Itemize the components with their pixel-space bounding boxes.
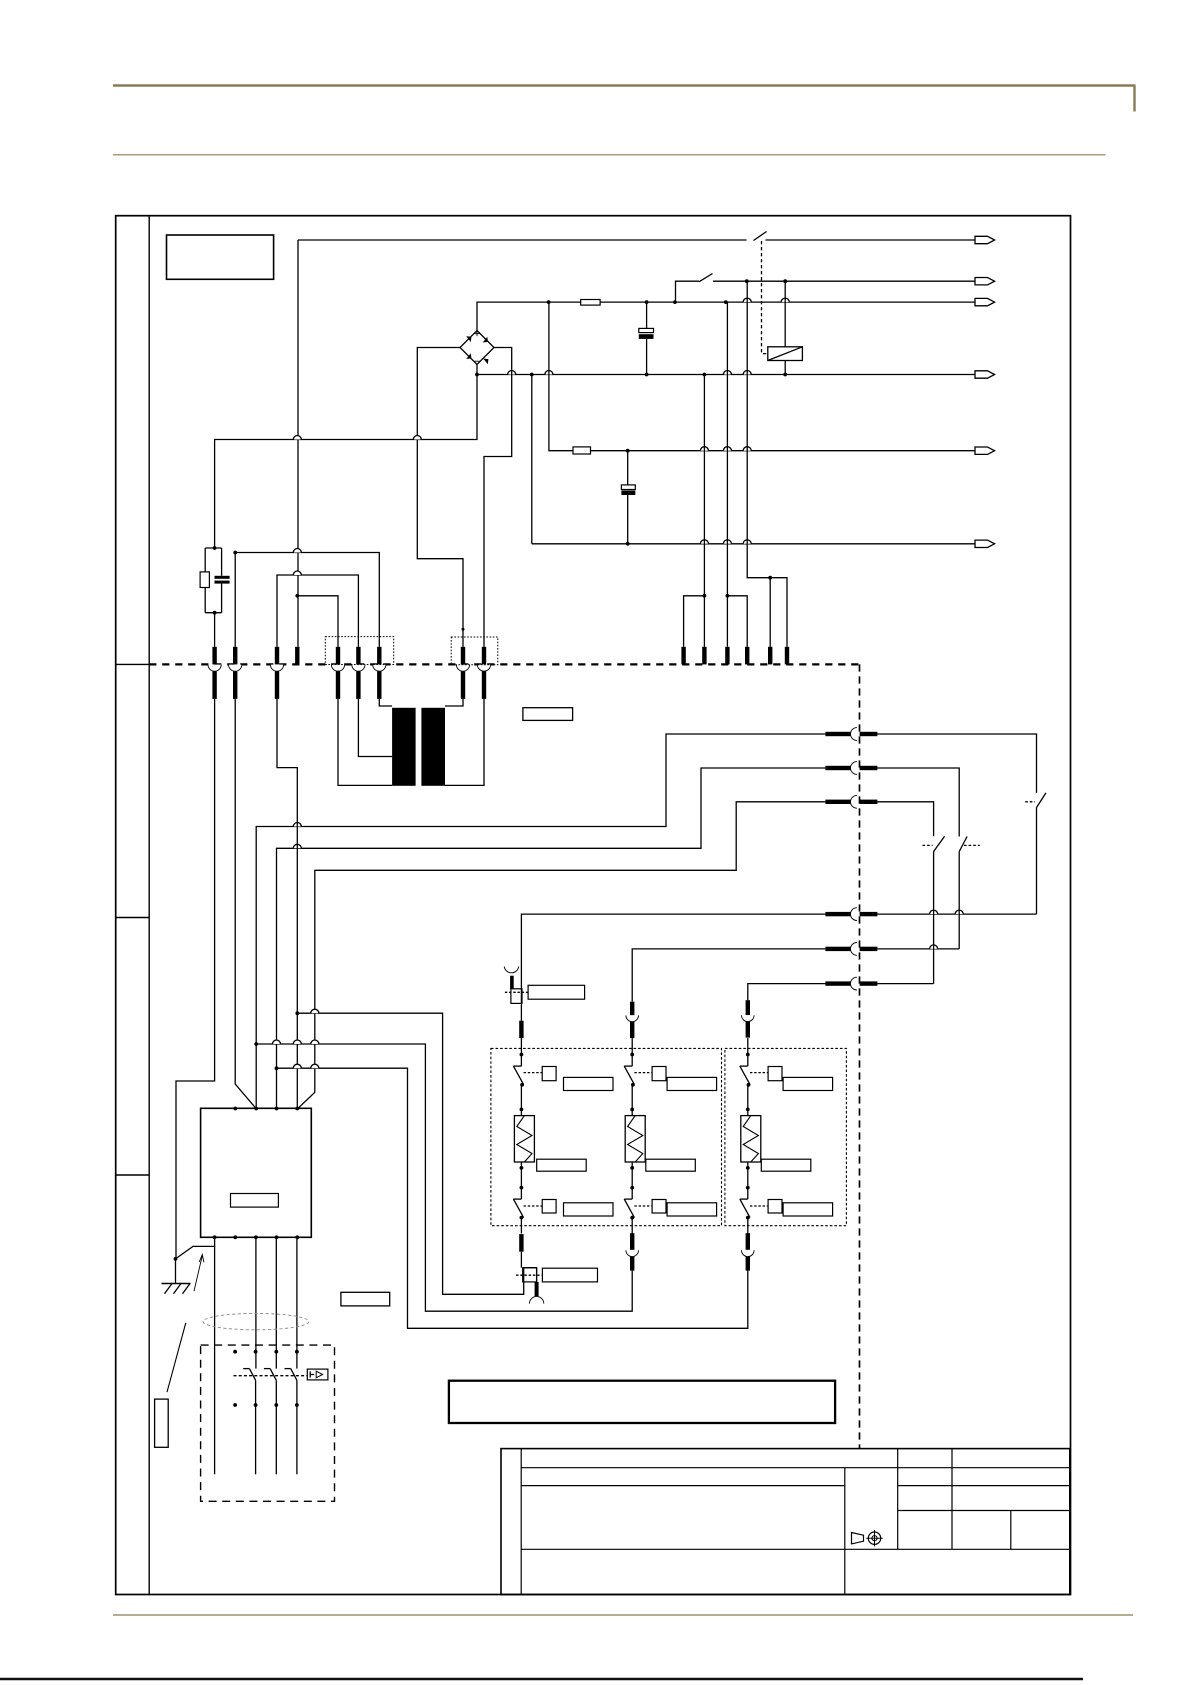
motor lead U [255,1237,257,1368]
hops feedback 2 [273,1040,319,1044]
relay K1 coil [768,347,803,361]
wire feedback 3 [277,1068,748,1328]
capacitor C1 [639,302,654,374]
switch S1 dashed link to relay [762,241,768,354]
junction phase V [275,1066,279,1070]
title block row 3 right [898,1510,1070,1512]
fan3 connector pair [742,1000,755,1037]
hop phase V [293,844,301,848]
hop pin2 wire [293,549,301,553]
title block mid vertical [844,1468,846,1595]
fuse F2 [573,447,591,454]
fan2 connector pair [626,1002,639,1038]
transformer T1 secondary core [421,708,445,786]
fuse holder F3 socket arc [504,966,519,972]
hops return rail [700,540,751,544]
thermal trip dashed link [234,1375,308,1377]
connector boundary dashed vertical [859,664,861,1448]
wire to pins 12-13 [726,302,748,647]
drive unit top junctions [233,1107,299,1111]
wire pin9 to transformer sec bottom [445,699,484,786]
junction pin4 wire [295,594,299,598]
wire pin4 to pin5 [297,596,338,647]
wire feedback 1 [297,1013,536,1294]
PE arrow annotation [194,1255,204,1292]
wire phase V [277,768,826,1108]
junction F2 rail [626,449,630,453]
wire DC to RC snubber [215,375,477,549]
fan1 bottom pin [519,1234,523,1268]
title block row 2 left [521,1485,845,1487]
note label box [341,1292,390,1306]
motor junctions row 2 [233,1403,299,1407]
legend box top-left [167,235,274,279]
fan2 contactor column [624,1038,716,1233]
wire 0V rail [477,365,975,375]
title block col 1 [520,1449,522,1595]
bridge V1 diodes [466,331,488,364]
fan3 bottom connector pair [742,1233,755,1270]
title block row 2 right [898,1485,1070,1487]
junction return rail [626,542,630,546]
wire interlock 3 [877,802,944,984]
transformer T1 label box [523,708,573,721]
fan3 contactor column [740,1038,833,1233]
projection symbol [852,1530,883,1546]
wire X1 stub vertical [297,240,299,647]
hops second rail [700,447,751,451]
motor lead V [275,1237,277,1368]
hop interlock 2 [930,945,938,949]
fuse holder F4 pin [535,1282,539,1296]
wire pin5 to transformer bottom [338,699,392,786]
hops on snubber wire [293,436,421,440]
title block row 4 [521,1548,1070,1550]
wire second supply rail [549,302,975,451]
revision strip divider 3 [116,1174,150,1176]
motor junctions row 1 [233,1350,299,1354]
RC snubber node top [213,546,217,550]
cable label box vertical [155,1399,169,1447]
fan block frame A [491,1048,722,1225]
drive unit A1 label [231,1194,279,1208]
header rule top [113,86,1136,112]
inline connector pair 4 [825,908,877,921]
wire S2 to connector X2 [713,280,975,282]
legend bar [449,1381,835,1423]
hops feedback 3 [293,1064,319,1068]
title block vertical B [897,1449,899,1550]
fuse F1 [581,300,600,306]
bridge rectifier V1 outline [460,331,494,365]
connector pin bars upper row [212,647,789,665]
title block vertical C [951,1449,953,1550]
wire phase W [298,802,825,1109]
wire to pins 14-15 [747,281,787,647]
connector X3 terminal [975,298,995,305]
switch S2 blade [699,274,713,282]
motor winding leads [256,1380,297,1474]
wire interlock 2 [877,768,979,949]
transformer T1 primary core [392,708,416,786]
revision strip divider 1 [116,663,150,665]
motor lead PE [176,1237,215,1474]
wire pin8 to transformer sec top [445,699,463,706]
junctions on 0V rail [475,373,787,377]
wire pin7 to transformer top [379,699,392,706]
hops interlock 1 [930,910,964,914]
title block outer [501,1449,1070,1595]
switch S1 blade [754,232,767,241]
RC snubber node bottom [213,611,217,647]
inline connector pair 6 [825,977,877,990]
earth node [174,1257,178,1261]
hop feedback 1 [311,1009,319,1013]
fan2 bottom connector pair [626,1233,639,1270]
motor M1 dashed box [201,1345,335,1501]
wire pin6 to transformer mid [358,699,392,757]
fan1 connector pin [519,1003,523,1038]
revision strip divider 2 [116,917,150,919]
junction pin2 wire [233,551,237,555]
bridge AC left wire [417,348,463,647]
junction S2-K1 coil top [745,279,787,283]
cable marker ellipse [203,1313,309,1329]
wire L1 to connector X1 [298,239,975,241]
wire fan3 supply [748,984,826,1001]
wire switch S2 branch [676,281,700,302]
wire +V rail [477,302,975,330]
connector sockets lower row [208,665,491,699]
thermal contact blades [243,1369,297,1381]
fan1 contactor column [513,1038,613,1233]
fuse holder F3 pin [510,976,514,989]
capacitor C2 [621,451,635,544]
title block vertical D [1010,1511,1012,1550]
bridge AC right wire [484,348,512,647]
inline connector pair 3 [825,795,877,808]
pin group frame B [451,637,498,665]
resistor R1 branch [200,548,222,613]
fuse holder F3 dashed tick [505,991,528,993]
connector boundary dashed horizontal [149,663,859,665]
motor lead W [296,1237,298,1368]
wire phase U [256,734,825,1108]
header rule 2 [113,154,1106,156]
hop pin3 wire [293,571,301,575]
inline connector pair 5 [825,943,877,956]
wire interlock 1 [877,734,1046,914]
inline connector pair 2 [825,762,877,775]
title block row 1 [521,1467,1070,1469]
wire PE from pin1 [176,699,215,1258]
connector X6 terminal [975,540,995,547]
wire neutral from pin2 [235,699,256,1108]
wire pin3 to pin6 [277,575,358,647]
relay K1 leads [784,281,786,374]
wire fan1 supply [521,914,825,1003]
fuse holder F4 socket arc [529,1296,543,1303]
hops on 0V rail [508,371,752,375]
wire pin2 to pin7 [235,553,379,647]
connector X5 terminal [975,447,995,454]
capacitor C3 branch [215,548,230,613]
fuse holder F4 label [542,1268,597,1282]
wire fan2 supply [632,949,825,1002]
fuse holder F3 body [511,989,522,1004]
junctions on +V rail [547,300,728,304]
footer rule black [0,1678,1083,1681]
fuse holder F4 dashed tick [516,1274,542,1276]
footer rule tan [113,1614,1133,1616]
pin group frame A [325,637,393,665]
connector X1 terminal [975,236,995,243]
ground symbol [162,1259,191,1294]
fuse holder F3 label [528,985,585,999]
connector X2 terminal [975,278,995,285]
junction above pin 8 [462,628,465,631]
hop phase U [293,823,301,827]
wire to pins 10-11 [684,375,707,647]
drawing border [116,216,1071,1595]
junction phase U [254,1042,258,1046]
connector X4 terminal [975,371,995,378]
wire pin3 continuation [277,699,297,1108]
revision strip line [148,216,150,1595]
wire return rail [532,375,975,544]
thermal trip device box [307,1369,328,1380]
wire feedback 2 [256,1044,632,1311]
drive unit bottom junctions [213,1235,299,1239]
inline connector pair 1 [825,728,877,741]
fan block frame B [725,1048,847,1225]
drive unit A1 box [201,1108,312,1237]
hops on +V rail [743,298,789,302]
junction control tap [295,1011,299,1015]
cable leader line [167,1323,186,1392]
fuse holder F4 body [523,1268,537,1282]
